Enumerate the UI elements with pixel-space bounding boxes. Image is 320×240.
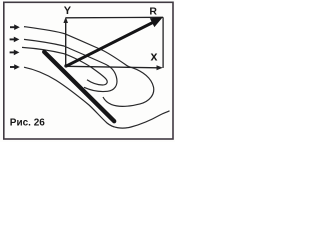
svg-text:R: R — [149, 5, 157, 17]
svg-text:Рис. 26: Рис. 26 — [10, 118, 45, 129]
svg-text:Y: Y — [64, 5, 72, 17]
vector R (resultant force) — [66, 17, 163, 66]
streamline S2 (middle, into middle vortex curl) — [24, 39, 117, 91]
rectangle right side — [162, 17, 164, 68]
streamline S3 (into inner vortex curl) — [22, 47, 107, 85]
svg-text:x: x — [151, 50, 158, 64]
flow arrow 3 — [10, 50, 20, 56]
streamline S1 (top, over R into outer vortex loop) — [24, 27, 154, 107]
axis Y — [63, 17, 68, 66]
plate (inclined flat plate) — [44, 52, 114, 121]
flow arrow 1 — [10, 24, 20, 30]
rectangle top side — [66, 16, 163, 19]
origin junction blob — [64, 64, 67, 67]
flow arrow 4 — [10, 64, 20, 70]
streamline S4 (under plate, sweeping right) — [24, 67, 170, 128]
flow arrow 2 — [10, 37, 20, 43]
axis X (bottom side with arrow) — [66, 65, 163, 70]
